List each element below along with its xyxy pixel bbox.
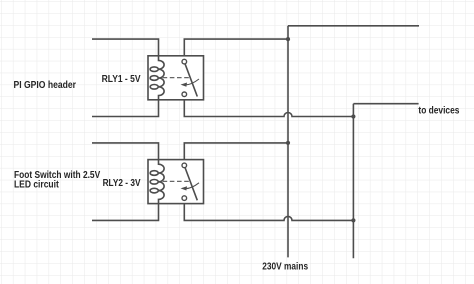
junction node D (RLY2 output / right bus) — [351, 218, 355, 222]
svg-text:RLY2 - 3V: RLY2 - 3V — [103, 177, 142, 188]
wire: right vertical bus (to devices / 230V mains) — [352, 104, 354, 259]
svg-text:230V mains: 230V mains — [262, 261, 308, 272]
relay RLY1 switch pin bottom contact — [182, 92, 187, 97]
relay RLY2 actuation link (dashed) — [163, 180, 190, 182]
relay RLY1 switch pin top contact — [182, 59, 187, 64]
wire: RLY1 coil bottom stub (PI GPIO header) — [92, 100, 159, 117]
wire: RLY2 switch common to left bus — [184, 143, 288, 163]
relay RLY2 switch pin bottom contact — [182, 196, 187, 201]
relay RLY2 body — [148, 160, 204, 204]
junction node A (RLY1 common / left bus) — [286, 37, 290, 41]
relay RLY1 body — [148, 56, 204, 100]
relay RLY1 coil L1 — [150, 56, 164, 100]
wire: main left vertical bus (230V mains live) — [287, 26, 289, 258]
svg-text:PI GPIO header: PI GPIO header — [14, 80, 77, 91]
wire: RLY1 switch common to left bus — [184, 39, 288, 59]
wire: to-devices output stub — [353, 103, 418, 105]
junction node C (RLY2 common / left bus) — [286, 141, 290, 145]
relay RLY2 switch pin top contact — [182, 163, 187, 168]
svg-text:to devices: to devices — [418, 105, 459, 116]
svg-text:RLY1 - 5V: RLY1 - 5V — [102, 73, 142, 84]
wire: top output bus from node A to right edge — [288, 25, 419, 27]
wire: RLY2 switch NO contact to right bus, hops over left bus — [184, 200, 353, 220]
wire: RLY1 coil top stub (PI GPIO header) — [92, 39, 159, 56]
wire: RLY2 coil bottom stub (foot switch circuit) — [92, 204, 159, 221]
relay RLY1 actuation arrow — [185, 79, 199, 85]
relay RLY1 switch blade — [185, 64, 197, 97]
relay RLY2 actuation arrow — [185, 183, 199, 189]
wire: RLY2 coil top stub (foot switch circuit) — [92, 143, 159, 160]
svg-text:LED circuit: LED circuit — [14, 179, 59, 190]
relay RLY1 actuation link (dashed) — [163, 77, 190, 79]
relay RLY2 coil L2 — [150, 160, 164, 204]
junction node B (RLY1 output / right bus) — [351, 114, 355, 118]
relay RLY2 switch blade — [185, 168, 197, 201]
wire: RLY1 switch NO contact to right bus, hops over left bus — [184, 96, 353, 116]
